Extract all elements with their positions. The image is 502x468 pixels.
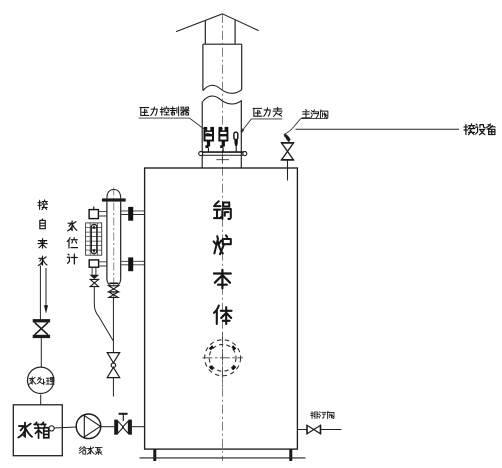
- feed water pump 给水泵: [76, 414, 101, 439]
- glass drain valve (bowtie): [90, 279, 98, 286]
- label 压力控制器: [140, 107, 189, 116]
- boiler body: [145, 168, 298, 449]
- label 接设备: [464, 124, 495, 135]
- leader line to pressure controllers: [190, 118, 207, 131]
- glass bottom fitting: [89, 260, 98, 267]
- upper connection pipe to boiler: [121, 211, 145, 215]
- label 排污阀: [311, 411, 334, 418]
- glass drain stem: [92, 267, 96, 275]
- fitting to column stub (top): [98, 211, 107, 216]
- gauge column bottom dome: [107, 280, 121, 286]
- pipe feed valve to boiler: [132, 426, 145, 428]
- flow arrow line: [45, 268, 47, 307]
- column drain valve 1 (bowtie): [109, 286, 119, 292]
- blowdown pipe from boiler: [297, 429, 341, 431]
- instrument mounting plate: [200, 152, 246, 155]
- upper pipe valve (black): [128, 207, 133, 221]
- pipe valve to treatment: [40, 338, 42, 367]
- pipe treatment to tank: [40, 395, 42, 405]
- blowdown outlet pipe (open end): [112, 378, 114, 397]
- blowdown valve (horizontal bowtie): [307, 425, 321, 434]
- chimney break wave 1: [203, 85, 242, 93]
- lower pipe valve (black): [128, 257, 133, 271]
- water tank 水箱: [13, 405, 62, 456]
- steam outlet line to equipment: [296, 128, 460, 130]
- label 压力控制器 underline: [139, 117, 190, 119]
- capsule arrows: [92, 225, 95, 229]
- leader line to pressure gauge: [241, 119, 251, 132]
- gauge column centerline: [113, 188, 115, 303]
- fitting to column stub (bottom): [99, 262, 107, 266]
- label 接自来水 (vertical): [38, 200, 48, 266]
- burner manhole (dashed circles): [202, 333, 243, 388]
- label 水位计 (vertical): [67, 221, 77, 264]
- glass top stub: [93, 207, 95, 210]
- centerline (vertical dash-dot): [221, 14, 223, 461]
- column drain pipe: [112, 297, 114, 352]
- gauge glass frame: [86, 223, 102, 255]
- pressure controller 1: [204, 127, 215, 152]
- blowdown angle valve (double cone with wheel): [107, 353, 120, 378]
- label 给水泵: [79, 447, 102, 455]
- tap water pipe line: [39, 266, 41, 320]
- centerline cross tick below plate: [216, 157, 229, 163]
- gauge column top flange: [102, 198, 126, 201]
- water treatment circle 水处理: [28, 367, 54, 393]
- curved leader from 主汽阀 to valve: [284, 119, 301, 137]
- lower connection pipe to boiler: [121, 261, 145, 265]
- tank outlet circle: [49, 426, 54, 431]
- boiler base skid line: [140, 457, 306, 459]
- column drain flange: [109, 282, 118, 284]
- chimney upper pipe: [203, 20, 242, 91]
- pipe tank to pump: [54, 427, 76, 428]
- steam pipe stub into boiler: [287, 160, 289, 181]
- pressure gauge (on stand): [234, 132, 238, 152]
- column drain valve 2 (bowtie): [109, 292, 118, 297]
- plate end circle left: [199, 152, 203, 156]
- gauge column body: [107, 202, 121, 280]
- gauge glass level capsule: [91, 224, 97, 254]
- pipe pump to feed valve: [101, 426, 114, 428]
- leader arrowhead: [285, 134, 291, 143]
- gauge glass lattice: [86, 223, 102, 255]
- label 锅炉本体: [214, 201, 232, 324]
- label 主汽阀 underline: [301, 118, 328, 120]
- chimney break wave 2: [203, 96, 242, 104]
- boiler base right leg: [289, 449, 292, 461]
- gauge column dome top: [107, 190, 121, 199]
- manhole clamp marks: [210, 346, 235, 369]
- label 压力表 underline: [251, 118, 282, 120]
- glass drain pipe with curve to junction: [94, 287, 113, 341]
- label 主汽阀: [302, 110, 328, 119]
- flow arrowhead: [44, 305, 48, 313]
- plate end circle right: [243, 152, 247, 156]
- chimney lower pipe: [202, 100, 241, 168]
- feed valve (flanged globe valve with T handle): [114, 414, 132, 435]
- label 压力表: [253, 107, 282, 116]
- glass top fitting: [89, 210, 98, 219]
- pressure controller 2: [218, 127, 228, 152]
- glass drain funnel: [89, 275, 99, 279]
- chimney rain cap: [176, 14, 259, 32]
- boiler base left leg: [153, 449, 156, 461]
- tap water inlet valve (flanged): [33, 319, 50, 338]
- main steam valve (bowtie): [281, 143, 294, 160]
